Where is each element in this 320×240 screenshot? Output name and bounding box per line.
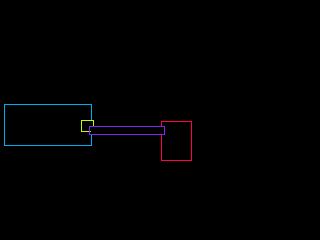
- purple bar outline (connector), cols 89-164 rows 126-134: [89, 126, 165, 135]
- blue rectangle (left box), outline cols 4-91 rows 104-145: [4, 104, 92, 146]
- red rectangle (right box), outline cols 161-191 rows 121-160: [161, 121, 192, 161]
- yellow square (small box on blue rect right edge), cols 81-93 rows 120-131, black filled: [81, 120, 94, 132]
- purple bar inner black fill, cols 91-163 rows 127-133 (leaves yellow nub at 90,131 visible): [91, 127, 164, 134]
